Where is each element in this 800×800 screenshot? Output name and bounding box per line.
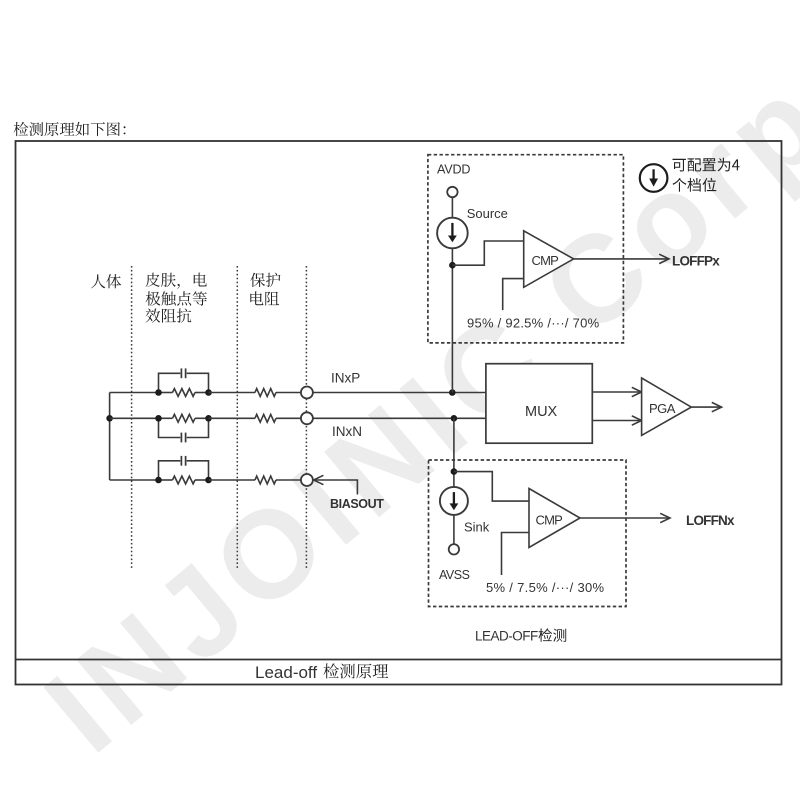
resistor (skin/electrode impedance, INxP row)	[159, 392, 173, 394]
dotted separator line 1 (人体 | 皮肤)	[131, 266, 133, 570]
wire to terminal (BIASOUT)	[276, 479, 301, 481]
terminal INxN (open circle)	[301, 412, 313, 424]
icon: configurable current source (circle w/ arrow)	[640, 164, 668, 192]
label 可配置为4	[673, 158, 740, 172]
resistor (skin/electrode impedance, INxN row)	[159, 417, 173, 419]
caption divider line	[16, 659, 782, 661]
wire source to INxP node (vertical)	[451, 248, 453, 392]
svg-text:Lead-off: Lead-off	[255, 663, 317, 682]
dotted separator line 2 (阻抗 | 保护电阻)	[236, 266, 238, 570]
wire node to CMP+ input (sink side)	[454, 472, 529, 502]
wire threshold reference to CMP- input (sink side)	[502, 533, 530, 576]
node: sink input	[451, 468, 458, 475]
capacitor (parallel, INxP row)	[159, 373, 181, 392]
BIASOUT lead wire with arrow into terminal	[314, 475, 324, 484]
terminal BIASOUT (open circle)	[301, 474, 313, 486]
wire node to CMP+ input	[452, 241, 523, 265]
svg-text:Source: Source	[467, 206, 508, 221]
svg-text:5% / 7.5% /···/ 30%: 5% / 7.5% /···/ 30%	[486, 580, 605, 595]
wire: bus to impedance network (INxP row)	[110, 392, 159, 394]
dotted separator line 3 (保护电阻 | 芯片引脚)	[305, 266, 307, 570]
amplifier PGA	[642, 378, 692, 435]
comparator CMP (sink side)	[529, 489, 580, 548]
resistor (protection, INxN row)	[255, 414, 276, 422]
wire threshold reference to CMP- input	[503, 279, 524, 311]
node: INxP / source-branch junction	[449, 389, 456, 396]
wire: bus to impedance network (BIASOUT row)	[110, 479, 159, 481]
label 保护电阻	[250, 273, 280, 288]
dashed box: lead-off source detect	[428, 155, 624, 343]
svg-text:CMP: CMP	[536, 513, 563, 528]
svg-text:AVSS: AVSS	[439, 568, 470, 582]
svg-text:LEAD-OFF: LEAD-OFF	[475, 629, 538, 644]
current source "Source"	[437, 218, 468, 249]
MUX block	[486, 364, 592, 444]
junction dots (BIASOUT RC network)	[155, 477, 162, 484]
svg-text:INxN: INxN	[332, 424, 362, 439]
svg-text:INJOINIC Corp.: INJOINIC Corp.	[21, 21, 800, 779]
junction on bus (row INxN)	[106, 415, 113, 422]
dashed box: lead-off sink detect	[429, 460, 627, 607]
label 个档位	[673, 178, 717, 192]
svg-text:PGA: PGA	[649, 401, 676, 416]
wire sink to AVSS	[453, 515, 455, 544]
node: source output	[449, 262, 456, 269]
svg-text:CMP: CMP	[532, 253, 559, 268]
svg-text:LOFFPx: LOFFPx	[672, 254, 720, 269]
current source "Sink"	[440, 487, 468, 515]
wire MUX output B to PGA	[592, 420, 641, 422]
label 人体	[91, 274, 121, 288]
resistor (protection, BIASOUT row)	[255, 476, 276, 484]
heading text 检测原理如下图：	[14, 122, 126, 136]
wire: bus to impedance network (INxN row)	[110, 417, 159, 419]
wire INxN node to sink node (vertical)	[453, 418, 455, 487]
wire INxP terminal to MUX	[313, 392, 486, 394]
node: INxN / sink-branch junction	[451, 415, 458, 422]
wire CMP output to LOFFPx	[574, 258, 668, 260]
terminal AVSS (open circle)	[449, 544, 459, 554]
terminal INxP (open circle)	[301, 387, 313, 399]
wire to terminal (INxN)	[276, 417, 301, 419]
svg-text:INxP: INxP	[331, 371, 360, 386]
svg-text:AVDD: AVDD	[437, 163, 470, 177]
junction dots (INxP RC network)	[155, 389, 162, 396]
svg-text:BIASOUT: BIASOUT	[330, 497, 384, 511]
junction dots (INxN RC network)	[155, 415, 162, 422]
wire: left body bus	[109, 393, 111, 481]
svg-text:Sink: Sink	[464, 520, 490, 535]
wire MUX output A to PGA	[592, 391, 641, 393]
resistor (protection, INxP row)	[255, 389, 276, 397]
comparator CMP (source side)	[524, 231, 574, 287]
svg-text:LOFFNx: LOFFNx	[686, 513, 735, 528]
terminal AVDD (open circle)	[447, 187, 457, 197]
figure frame border	[16, 141, 782, 685]
svg-text:95% / 92.5% /···/ 70%: 95% / 92.5% /···/ 70%	[467, 315, 600, 330]
wire to protection resistor (INxN row)	[209, 417, 256, 419]
capacitor (parallel, BIASOUT row)	[159, 461, 181, 480]
wire to protection resistor (BIASOUT row)	[209, 479, 256, 481]
resistor (skin/electrode impedance, BIASOUT row)	[159, 479, 173, 481]
wire CMP output to LOFFNx	[580, 517, 669, 519]
svg-text:MUX: MUX	[525, 404, 558, 420]
label 皮肤，电极触点等效阻抗	[146, 273, 207, 289]
wire INxN terminal to MUX	[313, 417, 486, 419]
capacitor (parallel, INxN row)	[159, 418, 181, 437]
wire PGA output	[691, 406, 720, 408]
wire to protection resistor (INxP row)	[209, 392, 256, 394]
wire to terminal (INxP)	[276, 392, 301, 394]
wire AVDD to current source	[451, 197, 453, 218]
